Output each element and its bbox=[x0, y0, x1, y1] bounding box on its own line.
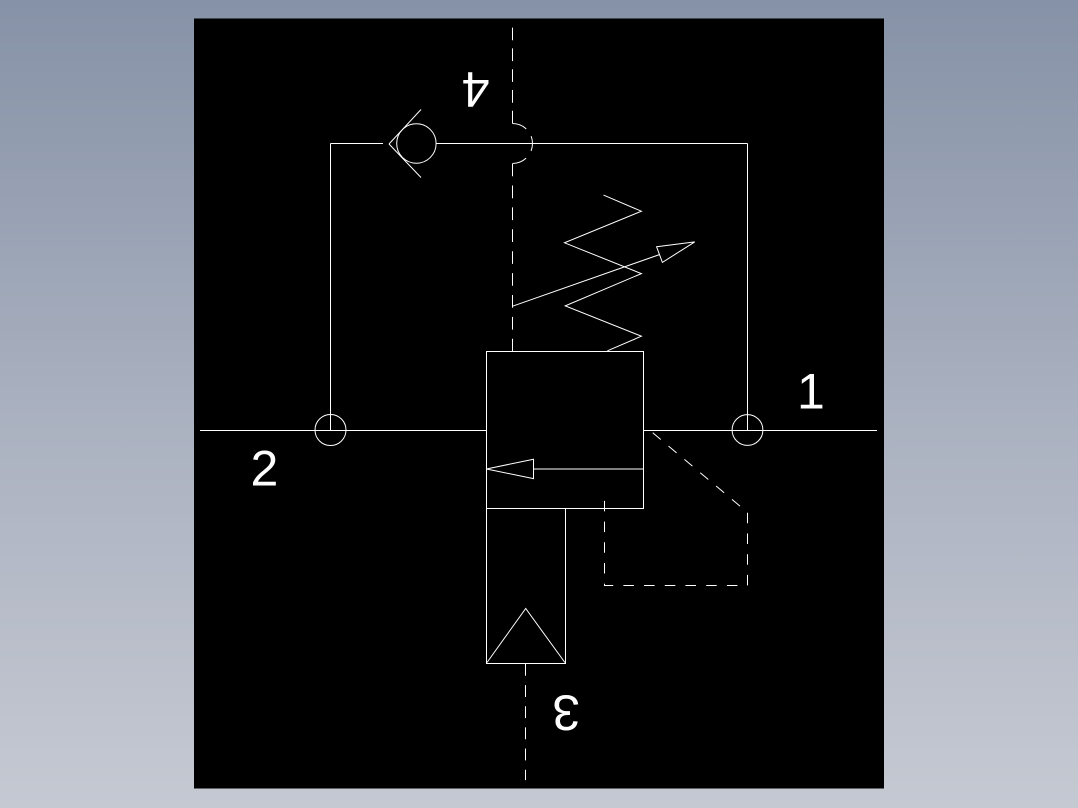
valve body bbox=[487, 352, 644, 509]
wire: main line right segment (port 1 side) bbox=[644, 430, 878, 432]
adjustment arrow shaft bbox=[513, 255, 660, 307]
actuator box bbox=[487, 509, 566, 664]
flow arrow head bbox=[487, 459, 534, 478]
check valve ball bbox=[397, 124, 436, 163]
wire: right branch vertical bbox=[747, 144, 749, 431]
check valve seat lower line bbox=[389, 144, 421, 178]
drain line (dashed) to port 3 bbox=[525, 664, 527, 780]
crossover hop arc (dashed) bbox=[513, 124, 533, 164]
node 1 bbox=[732, 415, 763, 446]
pilot drain line (dashed) lower segment bbox=[512, 164, 514, 352]
adjustment arrow head bbox=[657, 242, 695, 263]
spring bbox=[565, 195, 642, 351]
pilot drain line (dashed) upper segment bbox=[512, 28, 514, 124]
node 2 bbox=[315, 415, 346, 446]
pilot sense line (dashed) bbox=[605, 431, 748, 586]
wire: left branch vertical bbox=[330, 144, 332, 431]
svg-text:2: 2 bbox=[251, 441, 279, 497]
svg-text:4: 4 bbox=[462, 61, 490, 117]
check valve seat upper line bbox=[389, 110, 421, 145]
drawing canvas bbox=[194, 19, 884, 789]
wire: main line left segment (port 2 side) bbox=[200, 430, 487, 432]
svg-text:1: 1 bbox=[797, 364, 825, 420]
wire: top line right of check valve bbox=[436, 143, 747, 145]
svg-text:3: 3 bbox=[552, 684, 580, 740]
flow arrow shaft bbox=[534, 468, 644, 470]
wire: top line left of check valve bbox=[331, 143, 384, 145]
actuator triangle bbox=[487, 609, 565, 663]
